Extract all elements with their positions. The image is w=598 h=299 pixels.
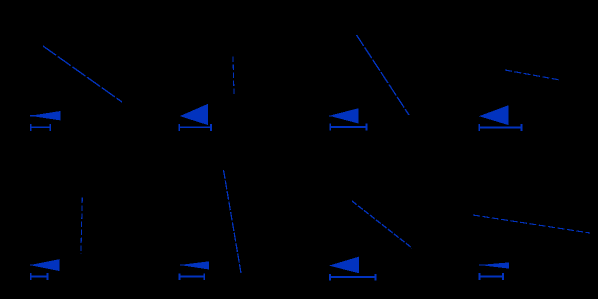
panel 7 arrow wedge glyph [329, 257, 359, 274]
panel 6 direction line [224, 170, 242, 273]
panel 4 direction line [505, 70, 560, 80]
panel 1 direction line [43, 46, 122, 102]
panel 1 interval scale bar [31, 124, 51, 131]
panel 3 interval scale bar [330, 124, 366, 131]
panel 1 arrow wedge glyph [30, 111, 60, 120]
panel 4 interval scale bar [479, 124, 521, 131]
panel 3 direction line [357, 35, 410, 115]
panel 8 direction line [473, 215, 590, 233]
panel 3 arrow wedge glyph [329, 108, 358, 123]
panel 6 arrow wedge glyph [180, 261, 209, 269]
panel 5 direction line [81, 198, 82, 255]
panel 4 arrow wedge glyph [479, 105, 509, 125]
panel 5 arrow wedge glyph [30, 259, 60, 271]
panel 2 direction line [233, 57, 234, 96]
panel 8 arrow wedge glyph [479, 262, 509, 268]
panel 5 interval scale bar [31, 273, 48, 280]
panel 6 interval scale bar [180, 273, 205, 280]
panel 8 interval scale bar [480, 273, 504, 280]
panel 2 arrow wedge glyph [180, 104, 208, 125]
panel 7 interval scale bar [330, 274, 376, 281]
panel 2 interval scale bar [179, 124, 211, 131]
panel 7 direction line [352, 201, 412, 248]
